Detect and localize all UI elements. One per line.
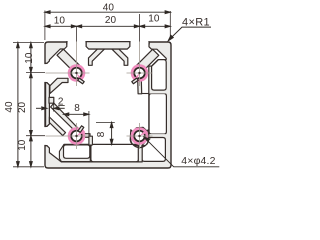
svg-text:10: 10 (148, 14, 160, 25)
svg-text:8: 8 (74, 103, 80, 114)
svg-text:10: 10 (24, 52, 35, 64)
svg-text:40: 40 (4, 101, 15, 113)
svg-text:4×R1: 4×R1 (182, 16, 210, 28)
svg-text:2: 2 (58, 97, 64, 108)
svg-text:10: 10 (17, 139, 28, 151)
svg-text:40: 40 (103, 2, 115, 13)
svg-text:10: 10 (54, 16, 66, 27)
svg-text:4×φ4.2: 4×φ4.2 (181, 155, 215, 167)
svg-text:20: 20 (105, 15, 117, 26)
svg-text:8: 8 (96, 131, 107, 137)
svg-text:20: 20 (17, 101, 28, 113)
